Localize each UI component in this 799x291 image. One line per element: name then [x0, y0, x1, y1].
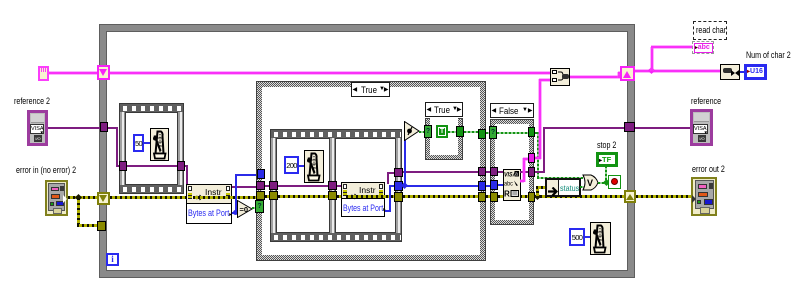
wire blue to Num of char	[740, 71, 745, 73]
tunnel purple S1 left	[119, 161, 127, 171]
VISA Read icon	[503, 169, 521, 201]
terminal reference 2 (VISA control)	[27, 110, 48, 146]
tunnels C3 right: green, pink, purple, error	[528, 127, 535, 137]
tunnel blue C1 left	[257, 169, 265, 179]
case structure C3 (False)	[490, 119, 534, 225]
wires purple/error S2 frame1	[278, 185, 329, 187]
while loop W1	[100, 25, 634, 277]
tunnels C1 right: green, purple, blue, error	[478, 129, 486, 139]
wire blue 200 to wait2	[298, 165, 305, 167]
label Num of char 2	[746, 51, 791, 60]
wire purple through S1	[127, 165, 177, 167]
wire purple C3 up to loop edge	[535, 171, 545, 173]
tunnel green C2 right	[456, 126, 464, 137]
loop conditional terminal	[608, 175, 621, 189]
Or gate V	[582, 174, 599, 191]
wire error C3 to right SR	[535, 195, 625, 198]
tunnel selector ? C1	[255, 200, 264, 213]
label error in	[16, 166, 76, 175]
wire blue node1 output	[232, 212, 238, 214]
wire purple divider to node2	[337, 185, 342, 187]
label reference 2	[14, 97, 50, 106]
tunnels S2 right: purple, blue, error	[394, 168, 403, 177]
wire pink: long accumulator wire inside loop	[110, 72, 550, 74]
wires across gap C1->C3	[486, 132, 491, 134]
string length icon	[720, 64, 740, 80]
property node 1 (Instr / Bytes at Port)	[186, 184, 232, 224]
shift register left (error)	[97, 192, 110, 205]
tunnel purple S1 right	[177, 161, 185, 171]
terminal reference (VISA)	[690, 109, 713, 146]
wire blue node2 out	[385, 210, 391, 212]
unbundle by name: status	[545, 178, 581, 197]
label stop 2	[597, 141, 616, 150]
sequence structure S1	[119, 103, 184, 194]
wire green C3 to Or gate	[535, 132, 539, 134]
boolean constant T	[436, 125, 448, 138]
numeric constant 500	[569, 228, 585, 246]
wire purple node1 out to case	[232, 186, 258, 188]
tunnel selector ? C3	[489, 126, 497, 139]
svg-text:abc: abc	[504, 181, 513, 187]
node not-equal-0	[404, 121, 420, 141]
numeric constant 50	[133, 134, 144, 152]
tunnel error (lower) on left border	[97, 221, 106, 231]
string constant (empty) top-left	[38, 66, 49, 81]
case structure C2 (small, True)	[425, 118, 463, 160]
wire error loop to error out 2	[636, 195, 691, 198]
terminal Num of char 2 (U16 indicator)	[744, 64, 767, 80]
wire purple: tunnel to sequence1	[108, 127, 118, 129]
svg-text:a: a	[515, 172, 518, 178]
tunnel selector ? C2	[424, 125, 432, 138]
wire blue 50 to wait	[143, 142, 150, 144]
Wait(ms) icon 3	[590, 222, 611, 255]
wires into VISA Read	[498, 171, 503, 173]
wire purple: S1 to property node 1	[185, 165, 188, 167]
tunnels purple/error S2 divider	[328, 181, 337, 190]
label reference	[691, 97, 721, 106]
shift register right (pink)	[620, 66, 635, 81]
node =0	[237, 200, 253, 218]
wire pink outside loop to read char / string length	[635, 70, 720, 72]
wire error divider to node2	[337, 195, 342, 198]
wire pink concat out to right SR	[570, 76, 620, 78]
tunnel purple C1 left	[256, 181, 265, 190]
wire green T to tunnel	[448, 131, 457, 133]
iteration terminal i	[106, 253, 119, 266]
svg-text:=0: =0	[240, 205, 249, 214]
wire green Or to cond terminal	[598, 182, 608, 184]
blue junction + riser to comparison	[401, 182, 408, 189]
terminal error out 2 (cluster)	[691, 177, 717, 216]
S2 frame divider	[329, 138, 336, 233]
Wait(ms) icon 2	[304, 150, 324, 183]
wire green C2 to C1 right	[464, 131, 479, 133]
sequence structure S2 (2 frames)	[270, 129, 402, 242]
junction	[75, 194, 82, 201]
shift register left (pink, string)	[97, 65, 110, 80]
wires out of VISA Read	[520, 171, 529, 173]
wire error main inside loop	[110, 196, 257, 199]
svg-text:V: V	[587, 178, 593, 188]
tunnel purple on left border	[100, 122, 108, 132]
label error out 2	[692, 165, 725, 174]
wire purple node2 out	[387, 172, 389, 184]
tunnel error C1 left	[256, 191, 265, 200]
wires S2 right to C1 right	[403, 171, 479, 173]
wire green status to Or	[580, 186, 584, 188]
tunnels purple/error S2 left	[269, 181, 278, 190]
tunnels C3 left: purple, blue, error	[490, 167, 498, 176]
wire error C1 left to S2	[265, 195, 273, 198]
wire green through C3	[497, 132, 528, 134]
terminal read char (string indicator)	[692, 41, 714, 54]
Wait(ms) icon 1	[150, 128, 169, 161]
svg-text:R: R	[504, 190, 510, 199]
wire pink: string const to left shift register	[49, 72, 97, 74]
tunnel purple right border	[624, 122, 635, 132]
wire error: error in to loop	[68, 196, 98, 199]
property node 2 (Instr / Bytes at Port)	[341, 182, 385, 217]
concatenate strings icon	[550, 68, 570, 86]
wire pink C3 up to concat	[535, 157, 541, 159]
terminal error in (cluster)	[45, 180, 68, 216]
wire green to small case	[419, 131, 426, 133]
case structure C1 (big, True)	[256, 81, 486, 261]
wire error through node1	[193, 196, 258, 199]
label read char (dashed)	[693, 21, 727, 40]
numeric constant 200	[284, 156, 299, 174]
wire error through node2 to S2 right	[346, 195, 395, 198]
wire purple: reference2 to loop tunnel	[48, 127, 100, 129]
wire green stop2 down	[605, 166, 607, 180]
wire purple loop to reference	[635, 127, 690, 129]
terminal stop 2 (TF)	[596, 152, 618, 167]
shift register right (error)	[624, 190, 636, 203]
wire purple C1 left to S2	[265, 185, 273, 187]
case C1 label True	[351, 82, 390, 97]
wire blue 500 to wait3	[583, 236, 590, 238]
wire green =0 to case selector	[252, 207, 257, 209]
